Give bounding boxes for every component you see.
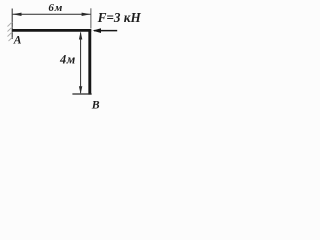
extension line right of dimension 6м: [90, 8, 92, 28]
background: [0, 0, 157, 114]
svg-text:6м: 6м: [48, 2, 63, 14]
beam vertical segment corner-B: [88, 29, 91, 95]
extension tick at B: [72, 93, 91, 95]
svg-text:F=3 кН: F=3 кН: [97, 10, 142, 25]
dimension line 6м: [13, 13, 91, 15]
dimension 4м bottom arrowhead: [79, 86, 82, 94]
dimension line 4м: [80, 33, 82, 94]
fixed support wall at A: [11, 9, 13, 40]
dimension 4м top arrowhead: [79, 32, 82, 40]
svg-text:A: A: [13, 34, 22, 47]
svg-text:B: B: [91, 97, 100, 111]
force arrow F: [94, 30, 117, 32]
beam horizontal segment A-corner: [12, 29, 91, 32]
support hatching: [8, 22, 13, 41]
dimension 6м right arrowhead: [82, 13, 91, 16]
svg-text:4м: 4м: [59, 53, 76, 67]
dimension 6м left arrowhead: [12, 13, 21, 16]
